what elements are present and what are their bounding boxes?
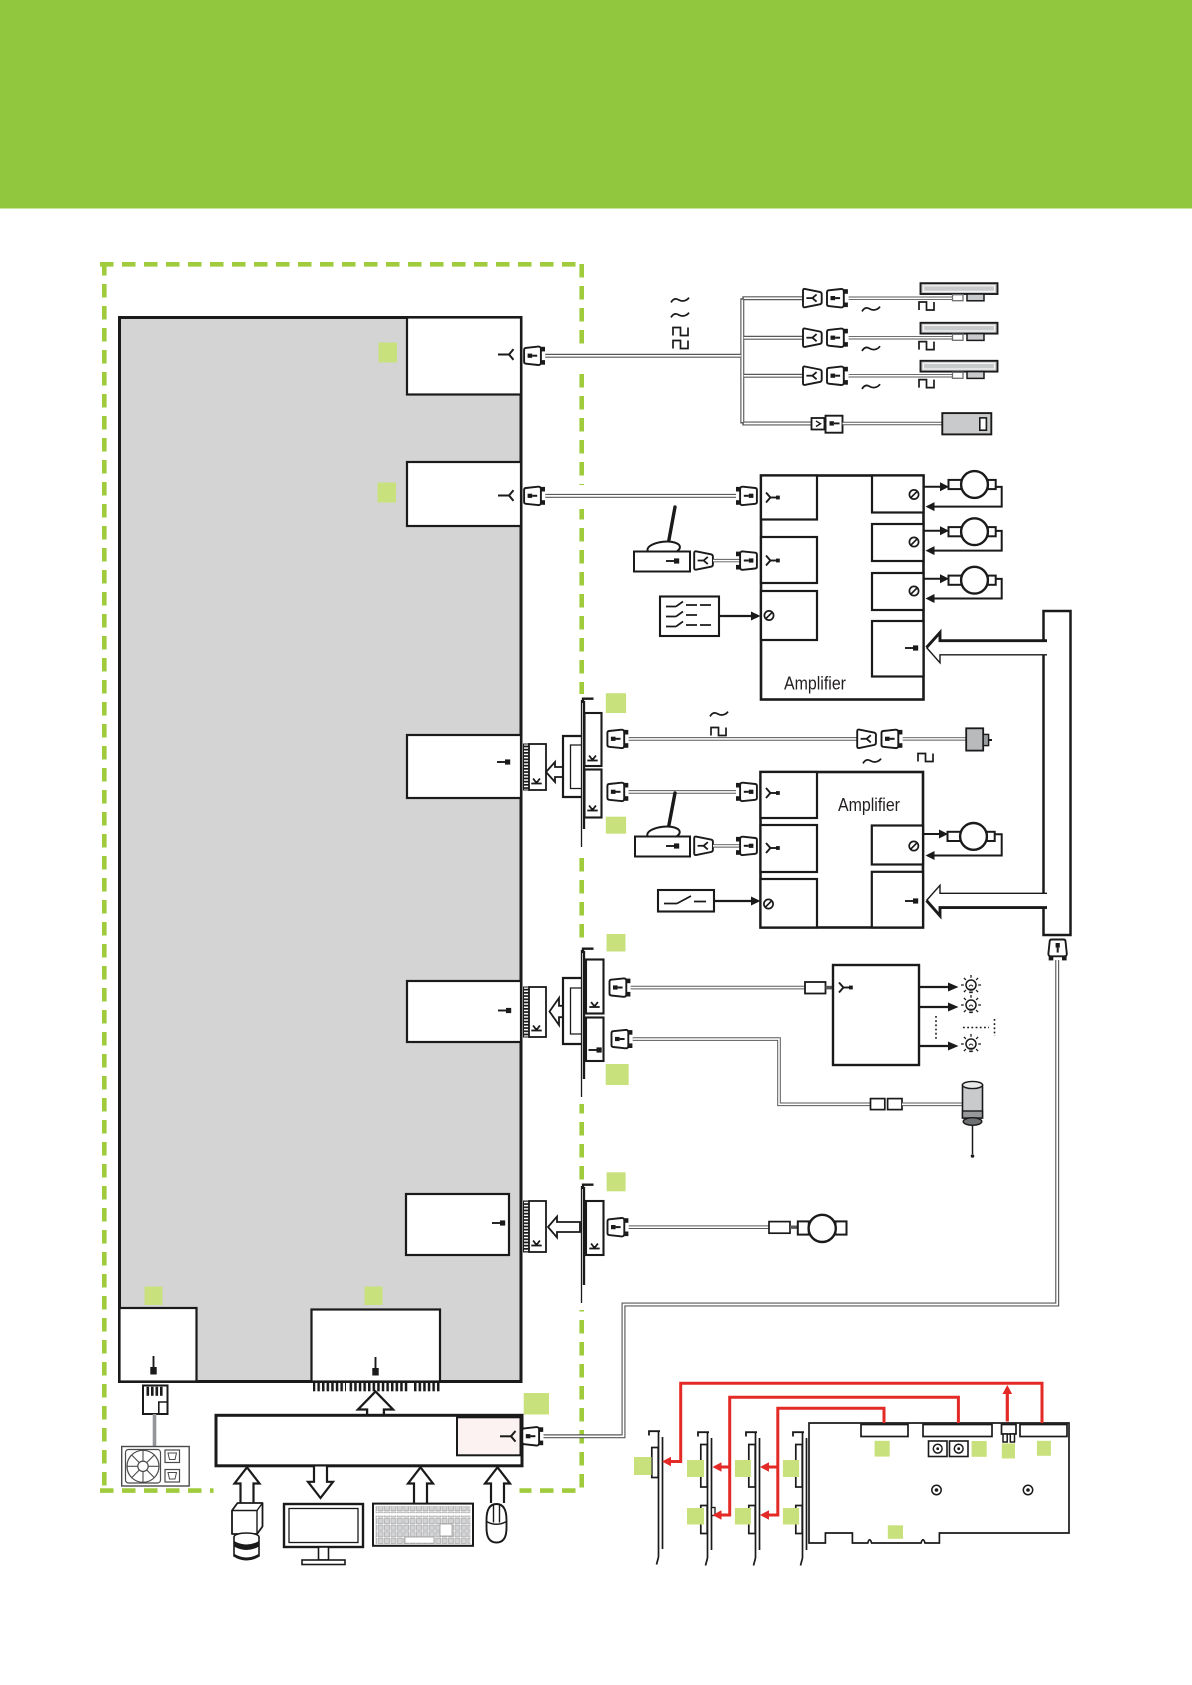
- cable to amp2 input1: [629, 790, 736, 794]
- mic2 plug pair: [694, 837, 713, 855]
- plug on bracket4 box B: [612, 1030, 633, 1048]
- hollow arrow bar to amp1: [927, 633, 1048, 663]
- screw hole right: [1023, 1485, 1032, 1494]
- trunk cable from block1: [545, 298, 811, 423]
- bracket4 C-channel: [563, 978, 581, 1044]
- power connector plug: [143, 1386, 168, 1415]
- cable to headset driver with ferrite: [629, 1225, 769, 1229]
- LED bulbs: [961, 975, 981, 992]
- connector block 5 (header): [406, 1194, 509, 1255]
- branch 4 cable to receiver: [843, 422, 943, 425]
- analog symbol branch3: [862, 384, 880, 389]
- cable to condenser mic with ferrites: [633, 1039, 871, 1104]
- jack icon front module: [500, 1431, 516, 1442]
- branch 3 plug pair: [803, 366, 822, 384]
- pin icon block5: [492, 1220, 505, 1225]
- connector block 2 (line out): [407, 462, 521, 526]
- amp2 speaker wiring: [923, 834, 1002, 856]
- white masks hiding dashed border under components: [560, 344, 590, 1310]
- bracket4 connector box B: [586, 1018, 604, 1062]
- plug on bracket4 box A: [610, 978, 631, 996]
- audio source selector box: [660, 597, 719, 637]
- amplifier 2: [761, 772, 924, 928]
- bracket4 plate: [581, 950, 583, 1097]
- connector block 4 (header): [407, 981, 521, 1042]
- plug at bus bar bottom: [1048, 940, 1066, 961]
- analog symbol branch1: [862, 307, 880, 312]
- webcam icon: [232, 1503, 263, 1560]
- coax cable to RCA pair: [629, 737, 857, 741]
- plug into amp1 input1: [736, 487, 757, 505]
- jack icon block1: [498, 349, 514, 360]
- red cable A card to bracket1: [669, 1383, 1042, 1461]
- PCI bracket 3: [746, 1432, 760, 1566]
- cable block2 to amp1: [545, 494, 736, 498]
- green label square S4a: [607, 934, 626, 952]
- green label squares bottom right: [634, 1457, 652, 1475]
- plug at block1: [524, 347, 545, 365]
- digital symbol below RCA: [918, 754, 933, 762]
- hollow arrow bracket3 to header: [546, 762, 567, 782]
- speaker bar 3: [921, 361, 998, 379]
- microphone 1: [634, 507, 690, 572]
- speaker 1 wiring: [924, 487, 1002, 507]
- green label square S5a: [607, 1172, 626, 1191]
- speaker bar 2: [921, 323, 998, 341]
- cable to LED box with ferrite: [631, 986, 805, 990]
- signal symbols above coax: [710, 712, 728, 717]
- plug at front module: [522, 1427, 543, 1445]
- sound card PCB (gray board): [120, 318, 522, 1382]
- speaker bar 1: [921, 283, 998, 301]
- digital symbol branch3: [919, 380, 934, 388]
- speaker 3 wiring: [924, 579, 1002, 599]
- pin icon block4: [498, 1008, 511, 1013]
- branch 3 cable: [849, 374, 953, 377]
- red arrow up from 2-pin header: [1006, 1392, 1009, 1422]
- edge ribbon connector block3: [524, 744, 547, 790]
- twin jack ports: [929, 1441, 969, 1457]
- headset driver: [798, 1215, 847, 1242]
- bracket3 connector box B: [585, 770, 602, 818]
- keyboard icon: [373, 1504, 473, 1546]
- hollow arrow card to host rect: [358, 1392, 393, 1416]
- svg-text:Amplifier: Amplifier: [838, 794, 900, 815]
- green label square S3a: [606, 693, 626, 713]
- green banner: [0, 0, 1192, 209]
- analog/digital signal symbols at trunk: [671, 298, 689, 303]
- bracket3 C-channel: [563, 736, 581, 797]
- digital symbol branch2: [919, 342, 934, 350]
- hollow arrow bracket5 to header: [548, 1217, 580, 1238]
- amp2 speaker: [948, 823, 995, 850]
- branch 1 cable to speaker bar: [849, 297, 953, 300]
- monitor icon: [284, 1504, 363, 1565]
- screw hole left: [932, 1485, 941, 1494]
- arrow source box to amp1: [719, 615, 752, 617]
- pin icon bus block: [372, 1357, 378, 1376]
- green label square S4b: [606, 1064, 629, 1085]
- plug at block2: [524, 487, 545, 505]
- speaker 1: [949, 471, 996, 498]
- RCA adapter: [966, 728, 992, 750]
- analog symbol below cable: [863, 759, 881, 764]
- branch 2 plug pair: [803, 328, 822, 346]
- branch 1 plug pair: [803, 289, 822, 307]
- LED control box: [833, 965, 919, 1065]
- red cable B card to bracket2: [720, 1397, 959, 1515]
- bracket4 connector box A: [586, 960, 604, 1014]
- speaker 2 wiring: [924, 531, 1002, 551]
- bracket5 plate: [581, 1186, 583, 1303]
- daughter card outline: [809, 1423, 1069, 1543]
- RCA plug pair: [857, 730, 876, 748]
- jack icon block2: [498, 490, 514, 501]
- bracket5 connector box: [586, 1201, 604, 1255]
- header connector 3 on card: [1020, 1425, 1067, 1437]
- green label square card bottom-middle: [365, 1287, 383, 1306]
- white strip under peripheral arrows: [214, 1484, 520, 1498]
- plug on bracket5 box: [608, 1218, 629, 1236]
- power lead to PSU: [153, 1414, 157, 1447]
- LED arrows: [919, 987, 950, 1046]
- PCI bracket 1: [649, 1431, 663, 1565]
- switch box: [658, 890, 714, 912]
- bottom-left power block: [120, 1308, 197, 1382]
- green label square card bottom-left: [145, 1287, 163, 1306]
- bracket3 connector box A: [585, 713, 602, 766]
- power supply unit: [122, 1447, 190, 1487]
- condenser microphone: [963, 1081, 983, 1157]
- green label square near host connector: [524, 1393, 549, 1415]
- connector block 3 (header): [407, 735, 521, 798]
- small 2-pin header: [1002, 1425, 1017, 1443]
- monitor arrow (down): [308, 1467, 333, 1499]
- connector block 1 (digital out): [407, 318, 521, 395]
- green label square S3b: [606, 817, 626, 834]
- dashed green install-area border: [100, 262, 584, 1491]
- PCI bracket 2: [698, 1432, 715, 1566]
- bracket3 plate: [581, 700, 583, 847]
- green label square S2: [378, 483, 397, 503]
- edge ribbon connector block4: [524, 987, 547, 1037]
- header connector 1 on card: [861, 1425, 908, 1437]
- branch 2 cable: [849, 336, 953, 339]
- branch 4 inline adapter plugs: [812, 418, 825, 430]
- keyboard arrow (up): [408, 1467, 433, 1503]
- webcam arrow (up): [235, 1467, 260, 1503]
- hollow arrow bracket4 to header: [550, 998, 568, 1025]
- pin icon block3: [497, 759, 510, 764]
- gold finger teeth group 3: [413, 1383, 440, 1392]
- cable to RCA jack: [903, 737, 966, 740]
- pin icon power block: [150, 1356, 156, 1375]
- hollow arrow bar to amp2: [927, 885, 1048, 916]
- speaker 3: [949, 567, 996, 594]
- digital receiver box: [942, 413, 991, 434]
- PCI bracket 4: [793, 1432, 807, 1566]
- green label square S1: [379, 343, 398, 363]
- host system bar: [216, 1415, 522, 1466]
- gold finger teeth group 2: [350, 1383, 410, 1392]
- ellipsis dots: [936, 1016, 995, 1040]
- gold finger teeth group 1: [313, 1383, 346, 1392]
- long cable front module to bus bar: [544, 960, 1058, 1436]
- front audio module (pink): [457, 1417, 521, 1455]
- mouse arrow (up): [485, 1467, 510, 1503]
- microphone 2: [635, 793, 690, 857]
- line-in bus bar (tall channel): [1044, 611, 1071, 935]
- mic1 plug pair: [694, 551, 713, 569]
- arrow switch to amp2: [714, 900, 752, 902]
- edge ribbon connector block5: [524, 1201, 547, 1252]
- plug on bracket3 box A: [607, 730, 628, 748]
- bottom-middle bus block: [312, 1310, 441, 1382]
- digital symbol branch1: [919, 302, 934, 310]
- header connector 2 on card: [923, 1425, 992, 1437]
- mouse icon: [487, 1504, 507, 1543]
- amplifier 1: [761, 476, 924, 700]
- svg-text:Amplifier: Amplifier: [784, 673, 846, 694]
- speaker 2: [949, 518, 996, 545]
- plug into amp2 input1: [736, 783, 757, 801]
- red cable C card to bracket3: [767, 1408, 884, 1515]
- analog symbol branch2: [862, 346, 880, 351]
- plug on bracket3 box B: [607, 783, 628, 801]
